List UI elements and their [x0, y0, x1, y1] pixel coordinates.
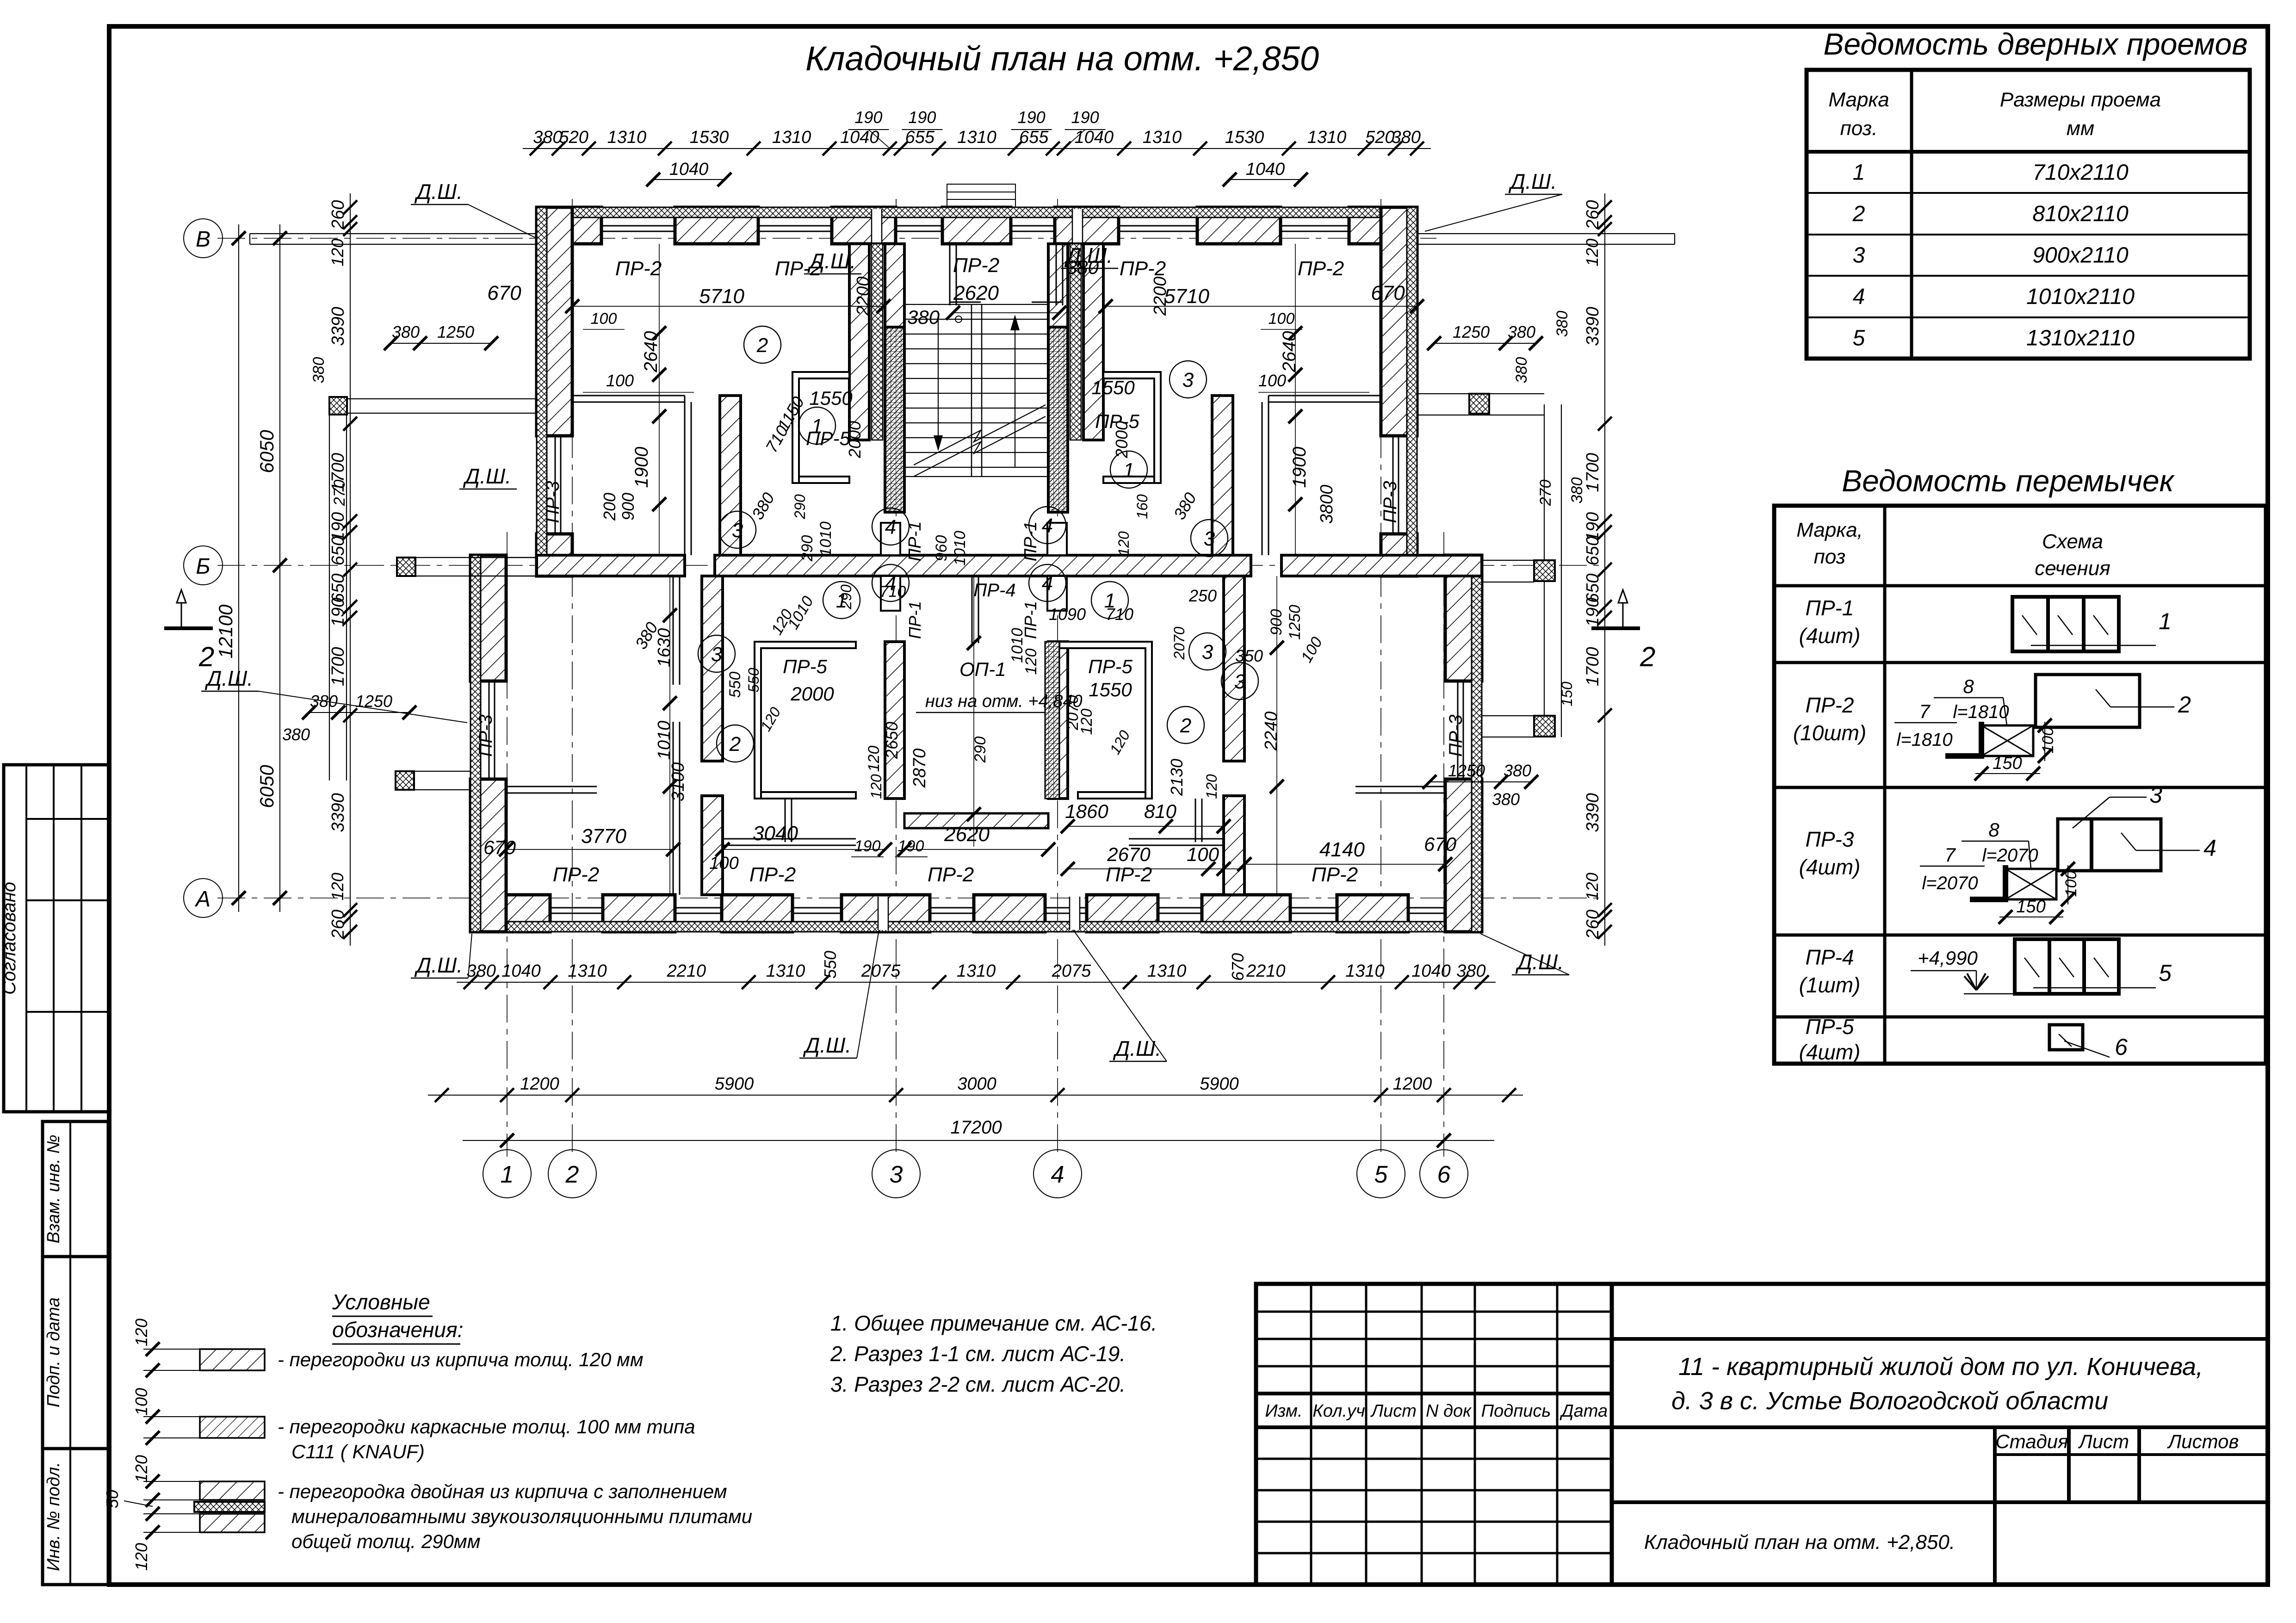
svg-text:Ведомость перемычек: Ведомость перемычек	[1842, 464, 2175, 498]
svg-text:4140: 4140	[1319, 838, 1365, 861]
svg-text:N док: N док	[1426, 1401, 1472, 1421]
svg-text:1040: 1040	[840, 128, 879, 147]
svg-text:120: 120	[865, 746, 883, 772]
svg-text:550: 550	[821, 951, 840, 979]
svg-text:4: 4	[1042, 514, 1053, 537]
svg-text:5: 5	[2159, 960, 2172, 986]
svg-text:120: 120	[328, 239, 347, 266]
svg-text:1: 1	[1123, 459, 1134, 482]
axis circle 4	[1034, 1150, 1082, 1198]
svg-text:1010: 1010	[817, 521, 835, 557]
svg-text:670: 670	[1228, 953, 1247, 981]
svg-text:l=2070: l=2070	[1982, 845, 2038, 866]
svg-text:120: 120	[1078, 709, 1095, 735]
svg-text:1010: 1010	[951, 531, 969, 566]
left detailed chain	[328, 193, 357, 946]
svg-text:380: 380	[1504, 761, 1531, 780]
svg-text:7: 7	[1919, 700, 1931, 722]
svg-text:- перегородка двойная из кирпи: - перегородка двойная из кирпича с запол…	[278, 1481, 727, 1502]
right detailed chain	[1583, 193, 1612, 946]
svg-text:ПР-2: ПР-2	[953, 254, 999, 277]
svg-text:8: 8	[1988, 819, 1999, 841]
axis grid lines	[217, 199, 1605, 1157]
svg-text:1310: 1310	[1143, 128, 1182, 147]
svg-text:11 - квартирный жилой дом по у: 11 - квартирный жилой дом по ул. Коничев…	[1678, 1353, 2203, 1381]
svg-text:Д.Ш.: Д.Ш.	[463, 464, 511, 488]
svg-text:260: 260	[1583, 910, 1603, 939]
svg-text:900: 900	[1268, 609, 1285, 636]
lintel schedule table: Ведомость перемычек	[1774, 464, 2266, 1064]
svg-text:(4шт): (4шт)	[1799, 1040, 1861, 1064]
svg-text:2200: 2200	[1151, 277, 1170, 316]
svg-text:1040: 1040	[1074, 128, 1114, 147]
svg-text:ПР-1: ПР-1	[905, 601, 924, 639]
svg-text:5900: 5900	[1200, 1074, 1239, 1094]
svg-text:ПР-2: ПР-2	[1312, 863, 1358, 886]
svg-text:2075: 2075	[861, 961, 901, 981]
corner dim sets	[282, 311, 1586, 809]
svg-text:380: 380	[1456, 961, 1485, 981]
svg-text:д. 3 в с. Устье Вологодской об: д. 3 в с. Устье Вологодской области	[1671, 1387, 2108, 1415]
middle wall on axis Б	[470, 555, 1482, 576]
svg-text:(1шт): (1шт)	[1799, 973, 1861, 997]
lintel ПР-3 schema	[1920, 782, 2216, 924]
svg-text:ПР-2: ПР-2	[1806, 693, 1854, 717]
svg-text:Взам. инв. №: Взам. инв. №	[44, 1134, 63, 1243]
svg-text:100: 100	[1269, 310, 1295, 328]
interior dimension lines upper	[565, 244, 1424, 555]
svg-text:190: 190	[908, 108, 936, 127]
svg-text:650: 650	[328, 536, 348, 565]
svg-text:150: 150	[1559, 681, 1575, 706]
left stamp: Взам. инв. №	[43, 1121, 108, 1257]
svg-text:290: 290	[798, 535, 816, 562]
svg-text:160: 160	[1134, 494, 1151, 519]
room dims bottom	[483, 679, 1457, 865]
svg-text:380: 380	[282, 725, 310, 744]
svg-text:5: 5	[1853, 326, 1865, 350]
svg-text:1: 1	[811, 415, 823, 438]
svg-text:ПР-2: ПР-2	[1298, 257, 1344, 280]
svg-text:670: 670	[487, 282, 521, 304]
svg-text:- перегородки из кирпича толщ.: - перегородки из кирпича толщ. 120 мм	[278, 1349, 644, 1370]
svg-text:6050: 6050	[256, 765, 278, 808]
svg-text:120: 120	[132, 1455, 151, 1483]
svg-text:(10шт): (10шт)	[1793, 721, 1866, 745]
svg-text:Подп. и дата: Подп. и дата	[44, 1297, 63, 1407]
axis circle А	[184, 879, 223, 917]
top outer wall	[537, 207, 1417, 244]
svg-text:1700: 1700	[1583, 647, 1603, 686]
left stamp: Инв. № подл.	[43, 1449, 108, 1585]
svg-text:120: 120	[1583, 239, 1602, 266]
ПР-5 labels	[783, 410, 1139, 677]
entrance porch	[947, 184, 1015, 207]
lintel labels ПР-2 top	[615, 254, 1344, 280]
svg-text:3800: 3800	[1317, 485, 1337, 524]
axis circle 1	[483, 1150, 531, 1198]
porch outlines left	[329, 399, 537, 790]
svg-text:Д.Ш.: Д.Ш.	[1064, 243, 1113, 267]
svg-text:17200: 17200	[950, 1117, 1002, 1138]
svg-text:900: 900	[619, 493, 637, 520]
svg-text:960: 960	[933, 535, 950, 562]
svg-text:Подпись: Подпись	[1481, 1401, 1551, 1421]
svg-text:Д.Ш.: Д.Ш.	[414, 180, 463, 204]
partitions upper apartments	[572, 396, 1381, 402]
svg-text:- перегородки каркасные толщ.: - перегородки каркасные толщ. 100 мм тип…	[278, 1416, 695, 1437]
svg-text:1040: 1040	[1246, 160, 1285, 179]
section mark 2 right	[1591, 590, 1655, 672]
extra partitions lower	[673, 576, 1224, 895]
svg-text:1250: 1250	[1286, 605, 1304, 640]
svg-text:6: 6	[2115, 1034, 2128, 1060]
svg-text:1310: 1310	[957, 961, 996, 981]
svg-text:Д.Ш.: Д.Ш.	[1113, 1036, 1161, 1060]
svg-text:ПР-3: ПР-3	[476, 714, 496, 756]
svg-text:380: 380	[907, 306, 940, 328]
svg-text:ПР-2: ПР-2	[615, 257, 662, 280]
bottom overall chain 17200	[463, 1117, 1494, 1147]
svg-text:120: 120	[132, 1543, 151, 1571]
svg-text:2620: 2620	[953, 282, 999, 304]
svg-text:ПР-5: ПР-5	[783, 656, 827, 677]
axis circle 5	[1357, 1150, 1405, 1198]
left outer wall (lower block)	[470, 555, 506, 932]
room number circles upper	[719, 326, 1228, 557]
svg-text:ПР-4: ПР-4	[973, 580, 1015, 601]
svg-text:2: 2	[565, 1161, 579, 1188]
lintel ПР-1 schema	[2012, 597, 2172, 651]
svg-text:200: 200	[600, 493, 619, 521]
svg-text:ПР-3: ПР-3	[543, 481, 563, 523]
svg-text:190: 190	[1583, 598, 1603, 627]
svg-text:190: 190	[854, 837, 881, 855]
stair treads	[904, 304, 1048, 477]
svg-text:ПР-4: ПР-4	[1806, 945, 1854, 969]
svg-text:150: 150	[2016, 897, 2045, 917]
svg-text:270: 270	[331, 480, 348, 507]
lintel ПР-4 schema	[1911, 939, 2172, 994]
svg-text:670: 670	[1424, 833, 1457, 855]
corridor walls below stair	[885, 642, 1068, 799]
svg-text:190: 190	[1071, 108, 1099, 127]
interior dimension lines lower	[499, 576, 1452, 895]
svg-text:3390: 3390	[1583, 307, 1603, 346]
svg-text:380: 380	[310, 357, 328, 384]
axis circle В	[184, 219, 223, 258]
svg-text:1310: 1310	[568, 961, 607, 981]
svg-text:1310: 1310	[957, 128, 996, 147]
svg-text:260: 260	[1583, 200, 1603, 229]
svg-text:2130: 2130	[1167, 759, 1186, 796]
svg-text:100: 100	[606, 371, 634, 390]
svg-text:2240: 2240	[1262, 712, 1281, 751]
svg-text:Размеры проема: Размеры проема	[2000, 88, 2161, 111]
top dimension chain	[523, 108, 1431, 155]
svg-text:А: А	[194, 887, 210, 911]
right outer wall (lower block)	[1445, 555, 1482, 932]
right outer wall (upper block)	[1381, 207, 1417, 576]
svg-text:l=1810: l=1810	[1896, 730, 1952, 750]
svg-text:290: 290	[792, 494, 808, 520]
piers at corridor (ПР-1)	[881, 523, 1067, 611]
stair stringer	[972, 304, 982, 477]
svg-text:минераловатными звукоизоляцион: минераловатными звукоизоляционными плита…	[291, 1505, 752, 1527]
svg-text:1250: 1250	[355, 692, 392, 711]
svg-text:190: 190	[854, 108, 882, 127]
svg-text:2: 2	[1180, 714, 1191, 737]
stair arrows	[914, 315, 1046, 477]
svg-text:1040: 1040	[1411, 961, 1451, 981]
svg-text:ПР-2: ПР-2	[553, 863, 599, 886]
svg-text:поз.: поз.	[1840, 117, 1878, 140]
svg-text:120: 120	[328, 873, 347, 900]
svg-text:520: 520	[559, 128, 588, 147]
svg-text:710х2110: 710х2110	[2032, 161, 2129, 185]
closet lower-right (ПР-5)	[1045, 642, 1152, 799]
svg-text:1310х2110: 1310х2110	[2026, 326, 2135, 350]
svg-text:380: 380	[1508, 322, 1535, 341]
porch column left 1	[329, 397, 347, 415]
svg-text:1310: 1310	[1147, 961, 1187, 981]
lintel ПР-2 schema	[1894, 675, 2191, 781]
svg-text:Д.Ш.: Д.Ш.	[1508, 169, 1557, 193]
svg-text:Кладочный план на отм. +2,850: Кладочный план на отм. +2,850	[805, 39, 1319, 78]
svg-text:1700: 1700	[1583, 453, 1603, 492]
svg-text:1200: 1200	[1393, 1074, 1432, 1094]
svg-text:ПР-2: ПР-2	[928, 863, 974, 886]
svg-text:380: 380	[310, 692, 338, 711]
left chain 6050+6050	[256, 224, 287, 912]
svg-text:2200: 2200	[854, 277, 873, 316]
svg-text:1310: 1310	[1307, 128, 1347, 147]
svg-text:7: 7	[1944, 844, 1956, 866]
lintel ПР-5 schema	[2049, 1025, 2128, 1060]
svg-text:120: 120	[868, 774, 885, 799]
svg-text:ПР-5: ПР-5	[1088, 656, 1133, 677]
axis circle 6	[1420, 1150, 1468, 1198]
ОП-1 label	[916, 658, 1083, 712]
svg-text:1700: 1700	[328, 647, 348, 686]
bottom outer wall	[470, 895, 1482, 932]
svg-text:250: 250	[1188, 586, 1217, 605]
svg-text:2640: 2640	[641, 331, 661, 373]
apartment separation wall lower-right	[1224, 576, 1244, 895]
svg-text:650: 650	[1583, 536, 1603, 565]
svg-text:3: 3	[1234, 670, 1246, 693]
svg-text:ПР-2: ПР-2	[1120, 257, 1166, 280]
title block	[1256, 1284, 2268, 1585]
svg-text:3770: 3770	[581, 825, 626, 848]
svg-text:2070: 2070	[1171, 626, 1188, 660]
svg-text:4: 4	[2203, 835, 2216, 861]
room number circles lower	[698, 564, 1258, 762]
deformation joint walls at stair	[849, 244, 1103, 440]
svg-text:ПР-1: ПР-1	[905, 521, 925, 562]
svg-text:Условные: Условные	[332, 1290, 430, 1314]
svg-text:(4шт): (4шт)	[1799, 624, 1861, 648]
svg-text:120: 120	[132, 1319, 151, 1346]
svg-text:3390: 3390	[1583, 793, 1603, 832]
left outer wall (upper block)	[537, 207, 572, 576]
svg-text:1: 1	[1104, 589, 1115, 612]
svg-text:Д.Ш.: Д.Ш.	[414, 953, 463, 977]
svg-text:190: 190	[328, 598, 348, 627]
svg-text:3: 3	[732, 519, 743, 542]
svg-text:1040: 1040	[669, 160, 709, 179]
svg-text:Изм.: Изм.	[1265, 1401, 1302, 1421]
svg-text:50: 50	[103, 1490, 122, 1508]
svg-text:380: 380	[392, 322, 420, 341]
svg-text:2: 2	[1640, 641, 1655, 672]
svg-text:670: 670	[1371, 282, 1405, 304]
apartment separation wall upper-right	[1212, 396, 1233, 555]
svg-text:ПР-3: ПР-3	[1380, 481, 1400, 523]
svg-text:общей толщ. 290мм: общей толщ. 290мм	[291, 1530, 481, 1552]
svg-text:380: 380	[1568, 477, 1586, 504]
svg-text:Дата: Дата	[1560, 1401, 1608, 1421]
secondary 1040 dims top	[646, 160, 1308, 186]
svg-text:100: 100	[591, 310, 617, 328]
lintel labels ПР-2 bottom	[553, 863, 1358, 886]
svg-text:2210: 2210	[667, 961, 706, 981]
svg-text:1900: 1900	[1289, 447, 1310, 488]
svg-text:380: 380	[1492, 790, 1520, 809]
svg-text:2: 2	[2178, 692, 2191, 718]
svg-text:380: 380	[466, 961, 495, 981]
svg-text:380: 380	[533, 128, 562, 147]
svg-text:120: 120	[1583, 873, 1602, 900]
svg-text:1310: 1310	[607, 128, 647, 147]
svg-text:100: 100	[132, 1388, 151, 1416]
svg-text:1550: 1550	[809, 387, 853, 409]
svg-text:Марка: Марка	[1828, 88, 1889, 111]
svg-text:обозначения:: обозначения:	[332, 1318, 463, 1342]
svg-text:ПР-1: ПР-1	[1021, 601, 1040, 639]
extra small dims lower half	[668, 626, 1247, 981]
Д.Ш. labels with leaders	[201, 169, 1569, 1061]
svg-text:Ведомость дверных проемов: Ведомость дверных проемов	[1823, 27, 2247, 61]
svg-text:ПР-5: ПР-5	[1806, 1015, 1854, 1039]
svg-text:3: 3	[890, 1161, 903, 1188]
rotated dims upper rooms	[600, 277, 1337, 566]
svg-text:2. Разрез 1-1 см. лист АС-19.: 2. Разрез 1-1 см. лист АС-19.	[830, 1342, 1126, 1366]
svg-text:Согласовано: Согласовано	[0, 882, 19, 995]
svg-text:1: 1	[2159, 608, 2172, 634]
bottom axis distance chain	[428, 1074, 1523, 1102]
svg-text:поз: поз	[1814, 545, 1846, 568]
svg-text:3390: 3390	[328, 793, 348, 832]
svg-text:5710: 5710	[1164, 285, 1209, 308]
porch column left 3	[396, 771, 414, 790]
extra partitions upper	[685, 402, 1269, 555]
svg-text:1. Общее примечание см. АС-16.: 1. Общее примечание см. АС-16.	[830, 1311, 1157, 1335]
svg-text:1530: 1530	[1225, 128, 1264, 147]
svg-text:Д.Ш.: Д.Ш.	[807, 249, 856, 273]
svg-text:2000: 2000	[790, 683, 834, 705]
rotated dims lower rooms	[631, 580, 1326, 796]
apartment separation wall upper-left	[720, 396, 741, 555]
extra small dims upper half	[583, 310, 1302, 556]
svg-text:380: 380	[1513, 357, 1530, 384]
door schedule table: Ведомость дверных проемов	[1807, 27, 2250, 359]
section mark 2 left	[164, 590, 214, 672]
svg-text:1550: 1550	[1089, 679, 1132, 700]
svg-text:1040: 1040	[501, 961, 541, 981]
porch column right 1	[1469, 394, 1489, 414]
svg-text:3000: 3000	[957, 1074, 996, 1094]
svg-text:3: 3	[1182, 369, 1194, 391]
svg-text:Д.Ш.: Д.Ш.	[204, 666, 253, 690]
axis circle 2	[548, 1150, 596, 1198]
svg-text:сечения: сечения	[2035, 557, 2110, 580]
stairwell walls	[885, 244, 1068, 512]
svg-text:(4шт): (4шт)	[1799, 855, 1861, 879]
closet upper-left (ПР-5)	[792, 372, 849, 483]
bottom dimension chain (window openings)	[457, 961, 1496, 989]
svg-text:3100: 3100	[668, 762, 688, 802]
svg-text:ПР-3: ПР-3	[1806, 827, 1854, 851]
entrance vestibule	[950, 244, 1063, 322]
svg-text:1: 1	[501, 1161, 514, 1188]
svg-text:4: 4	[1853, 285, 1865, 309]
svg-text:550: 550	[726, 672, 744, 698]
svg-text:низ на отм. +4,840: низ на отм. +4,840	[925, 692, 1083, 711]
porch outlines right	[1417, 394, 1561, 737]
porch column right 3	[1534, 716, 1555, 737]
svg-text:4: 4	[885, 572, 896, 595]
ПР-3 labels rotated	[476, 481, 1466, 756]
svg-text:900х2110: 900х2110	[2032, 243, 2129, 268]
svg-text:С111 ( KNAUF): С111 ( KNAUF)	[291, 1441, 425, 1462]
svg-text:2: 2	[756, 334, 768, 357]
svg-text:1310: 1310	[1345, 961, 1385, 981]
svg-text:3. Разрез 2-2 см. лист АС-20.: 3. Разрез 2-2 см. лист АС-20.	[830, 1372, 1126, 1396]
axis circle Б	[184, 546, 223, 585]
svg-text:1090: 1090	[1049, 605, 1086, 624]
svg-text:2: 2	[729, 733, 741, 756]
svg-text:2670: 2670	[1107, 843, 1151, 865]
svg-text:2210: 2210	[1246, 961, 1286, 981]
svg-text:655: 655	[1019, 128, 1049, 147]
svg-text:3: 3	[2149, 782, 2162, 808]
svg-text:l=1810: l=1810	[1953, 702, 2009, 722]
axis circle 3	[872, 1150, 920, 1198]
svg-text:2620: 2620	[944, 823, 990, 846]
svg-text:1530: 1530	[690, 128, 729, 147]
svg-text:1010х2110: 1010х2110	[2026, 285, 2135, 309]
porch column right 2	[1534, 560, 1555, 581]
left chain 12100	[215, 224, 246, 912]
legend: Условные обозначения	[103, 1290, 752, 1571]
svg-text:1010: 1010	[655, 721, 674, 760]
partitions lower apartments	[506, 576, 1445, 793]
svg-text:520: 520	[1365, 128, 1394, 147]
svg-text:150: 150	[1993, 754, 2022, 773]
svg-text:270: 270	[1537, 480, 1554, 507]
svg-text:Схема: Схема	[2042, 530, 2103, 553]
svg-text:2650: 2650	[882, 722, 901, 759]
svg-text:100: 100	[709, 854, 738, 873]
svg-text:Марка,: Марка,	[1796, 519, 1863, 541]
svg-text:1: 1	[836, 589, 847, 612]
svg-text:380: 380	[1553, 311, 1571, 337]
svg-text:190: 190	[1018, 108, 1046, 127]
apartment separation wall lower-left	[702, 576, 723, 895]
svg-text:5900: 5900	[715, 1074, 754, 1094]
svg-text:3390: 3390	[328, 307, 348, 346]
